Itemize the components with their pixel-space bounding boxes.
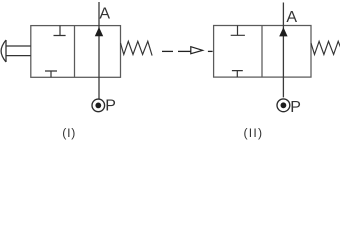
svg-text:P: P [290, 99, 301, 116]
push-button actuator (valve V1) [1, 40, 31, 62]
port P pressure source (valve V2) [277, 99, 290, 112]
svg-text:(I): (I) [62, 126, 76, 140]
pilot open arrowhead (valve V2) [191, 47, 203, 54]
spring return (valve V2) [311, 41, 340, 54]
valve V2 body (2/2-way, two position boxes) [214, 26, 311, 78]
wire port A line (valve V1) [98, 2, 100, 99]
blocked port bottom (valve V2 left box) [232, 71, 243, 78]
pilot signal dashed line (valve V2) [162, 50, 213, 52]
svg-text:A: A [286, 9, 297, 26]
blocked port bottom (valve V1 left box) [45, 71, 57, 77]
blocked port top (valve V2 left box) [231, 26, 245, 36]
spring return (valve V1) [121, 41, 153, 55]
port P pressure source (valve V1) [92, 99, 105, 112]
wire port A line (valve V2) [282, 3, 284, 98]
flow arrow (valve V2) [279, 27, 287, 36]
valve V1 body (2/2-way, two position boxes) [31, 26, 121, 78]
blocked port top (valve V1 left box) [54, 26, 66, 36]
svg-text:A: A [99, 6, 110, 23]
flow arrow (valve V1) [95, 27, 103, 36]
svg-text:P: P [105, 98, 116, 115]
svg-text:(II): (II) [244, 126, 264, 140]
